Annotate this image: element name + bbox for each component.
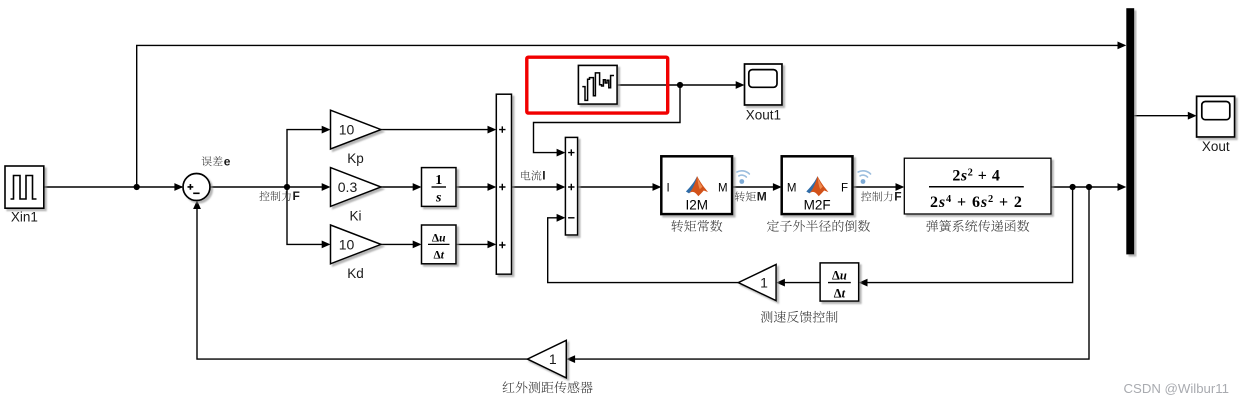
derivative du/dt (feedback) [820,263,859,301]
svg-text:Ki: Ki [349,208,361,223]
wire junction up to Mux input 1 [137,45,1118,187]
MATLAB logo M2F [806,176,828,196]
svg-text:1: 1 [549,351,557,367]
svg-text:e: e [224,154,231,168]
svg-text:F: F [894,190,901,204]
label 弹簧系统传递函数 [926,220,1029,232]
svg-text:I2M: I2M [685,198,708,213]
svg-text:F: F [293,189,300,203]
svg-text:10: 10 [339,236,355,252]
svg-text:Xin1: Xin1 [11,210,38,225]
wire I2M to M2F (转矩M) [732,186,779,188]
label 控制力F [259,191,291,201]
wire Mux to Scope Xout [1134,115,1192,117]
label 转矩常数 [671,220,722,232]
gain Kd [331,225,382,264]
derivative du/dt (PID) [422,225,457,264]
wire M2F to Transfer Fcn (控制力F) [853,186,903,188]
svg-text:2s4 + 6s2 + 2: 2s4 + 6s2 + 2 [930,194,1023,211]
svg-text:Xout1: Xout1 [746,108,781,123]
svg-text:10: 10 [339,122,355,138]
red highlight box [527,57,668,113]
scope Xout1 [745,64,783,105]
svg-text:M: M [757,190,767,204]
svg-text:2s2 + 4: 2s2 + 4 [952,168,1000,185]
gain 测速反馈控制 (1) [738,265,776,301]
junction on Xin1 output [134,184,140,190]
MATLAB function block M2F [782,156,853,214]
Mux bar [1126,8,1134,254]
svg-text:Δt: Δt [433,250,444,262]
svg-text:Δu: Δu [432,233,446,245]
label 转矩M [735,191,756,201]
wire Signal Builder to Scope Xout1 [617,84,736,86]
svg-text:F: F [841,183,848,195]
label 误差e [202,156,223,166]
svg-text:I: I [667,183,670,195]
label 红外测距传感器 [503,381,593,393]
integrator 1/s [422,168,457,207]
wire Kp to Sum1 input 1 [381,129,495,131]
gain Ki [331,168,382,207]
svg-text:Δt: Δt [834,287,846,301]
signal builder block [578,65,617,104]
block Xin1 pulse generator [5,166,44,208]
svg-text:M: M [787,183,797,195]
wire branch up to Kp gain [287,130,329,187]
scope Xout [1197,96,1235,137]
wire branch down to Kd gain [287,187,329,244]
svg-text:s: s [435,191,442,206]
label 电流I [521,170,541,180]
svg-text:Xout: Xout [1202,139,1230,154]
wire junction down to Sum2 input 1 [534,85,681,153]
wire feedback to Derivative2 [861,187,1073,283]
wire sum to Ki gain [210,186,329,188]
wire Derivative2 to gain 测速反馈控制 [778,282,820,284]
MATLAB function block I2M [661,156,732,214]
svg-text:1: 1 [435,173,442,188]
wire Integrator to Sum1 input 2 [456,186,495,188]
wire gain to Sum2 minus input [548,218,739,283]
gain 红外测距传感器 (1) [527,340,566,378]
label 测速反馈控制 [761,311,838,323]
junction on Signal Builder output [677,82,683,88]
MATLAB logo I2M [686,176,708,196]
label 定子外半径的倒数 [767,220,870,232]
junction feedback 2 [1086,184,1092,190]
svg-text:Δu: Δu [832,269,847,283]
gain Kp [331,110,382,149]
junction node 控制力F [284,184,290,190]
svg-text:0.3: 0.3 [338,179,358,195]
wire gain to sum minus input [197,202,527,360]
wire Sum2 to I2M [578,186,660,188]
svg-text:Kp: Kp [347,151,364,166]
wire Derivative1 to Sum1 input 3 [456,243,495,245]
svg-text:I: I [542,169,545,183]
wifi badge on I2M output [736,170,749,177]
wire Sum1 to Sum2 input 2 (电流I) [512,186,564,188]
transfer fcn block [904,158,1051,214]
wire Kd to Derivative1 [381,243,420,245]
svg-text:Kd: Kd [347,266,364,281]
svg-text:CSDN @Wilbur11: CSDN @Wilbur11 [1124,381,1229,396]
sum2 (+ + -) [565,137,577,235]
wire Transfer Fcn to Mux input 2 [1051,186,1118,188]
svg-text:1: 1 [760,275,768,291]
svg-text:M: M [718,183,728,195]
wire Xin1 to sum [44,186,182,188]
wifi badge on M2F output [858,170,871,177]
junction feedback 1 [1070,184,1076,190]
svg-text:M2F: M2F [804,198,831,213]
wire outer feedback to gain 红外测距传感器 [569,187,1090,359]
sum1 (3 plus) [496,94,511,274]
label 控制力F (2) [861,191,893,201]
sum junction (error) [183,174,210,201]
wire Ki to Integrator [381,186,420,188]
